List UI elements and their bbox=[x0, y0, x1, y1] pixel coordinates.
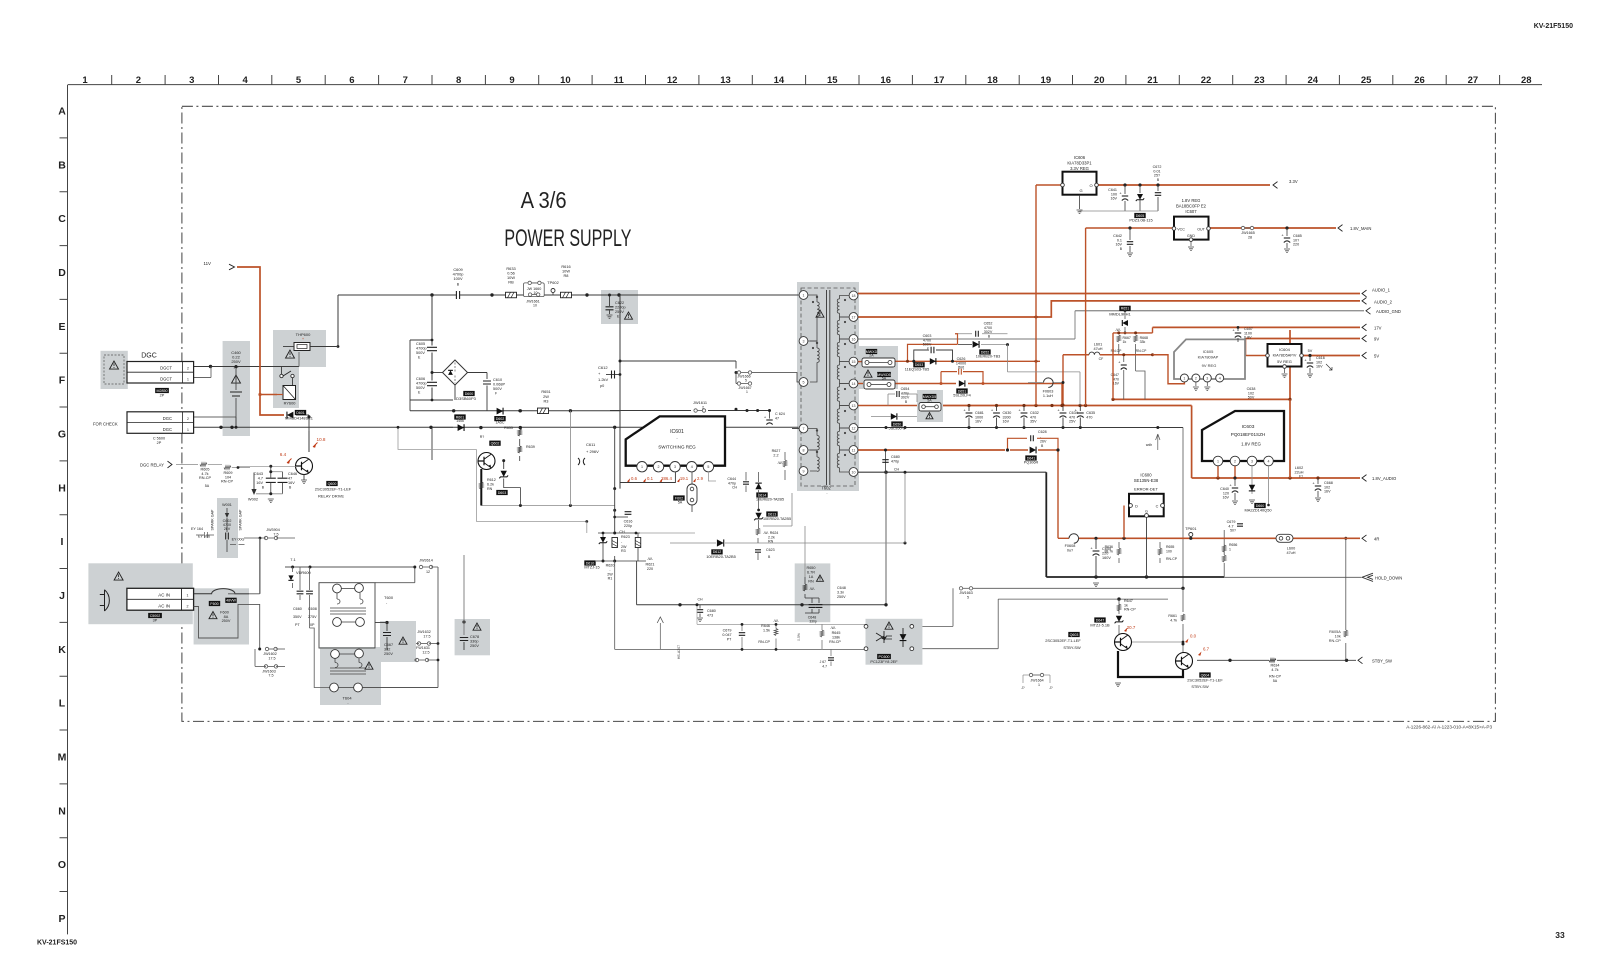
svg-text:HOLD_DOWN: HOLD_DOWN bbox=[1375, 575, 1402, 580]
wire gnd bus drop x1183 bbox=[1182, 428, 1184, 589]
svg-text:1: 1 bbox=[1183, 376, 1185, 380]
svg-text:0P: 0P bbox=[310, 623, 315, 627]
IC601 pins 1-5 bbox=[637, 462, 647, 472]
svg-text:11EQS03-TB5: 11EQS03-TB5 bbox=[905, 368, 929, 372]
svg-text:SWITCHING REG: SWITCHING REG bbox=[658, 445, 696, 450]
svg-text:140k: 140k bbox=[456, 419, 464, 423]
wire y561 row bbox=[596, 560, 646, 562]
page frame ruler lines bbox=[68, 84, 1542, 86]
orange wire IC606 input bbox=[1036, 184, 1062, 186]
svg-text:17.5: 17.5 bbox=[423, 634, 430, 638]
svg-text:10ERB20-TA2B5: 10ERB20-TA2B5 bbox=[706, 554, 736, 559]
shaded area fuse F600 bbox=[194, 588, 249, 644]
svg-text:F0608: F0608 bbox=[1065, 544, 1076, 548]
svg-text:10: 10 bbox=[560, 75, 571, 86]
zener D605 PDZ3.0B bbox=[1139, 185, 1141, 193]
svg-text:28: 28 bbox=[1248, 235, 1252, 239]
svg-text:RN-CP: RN-CP bbox=[758, 640, 770, 644]
svg-text:Q602: Q602 bbox=[491, 441, 500, 445]
svg-text:4.7k: 4.7k bbox=[1170, 618, 1177, 622]
svg-text:4: 4 bbox=[1268, 459, 1270, 463]
svg-text:5V: 5V bbox=[1374, 354, 1379, 359]
svg-text:L: L bbox=[59, 698, 66, 710]
diode D613 MMDL9FH1 bbox=[1119, 306, 1130, 311]
svg-text:A-1226-862-A\ A-1223-010-A<8X1: A-1226-862-A\ A-1223-010-A<8X15>A-P3 bbox=[1406, 725, 1492, 730]
svg-text:W002: W002 bbox=[248, 497, 258, 502]
svg-text:5A: 5A bbox=[205, 484, 210, 488]
svg-text:33: 33 bbox=[1555, 930, 1565, 940]
svg-text:JW1667: JW1667 bbox=[738, 386, 751, 390]
svg-text:16V: 16V bbox=[1110, 197, 1117, 201]
wire stby base line y588 bbox=[971, 587, 1183, 589]
svg-text:2SC3052EF-T1-LEF: 2SC3052EF-T1-LEF bbox=[1187, 678, 1223, 683]
svg-text:0.0: 0.0 bbox=[1190, 634, 1197, 639]
svg-text:16V: 16V bbox=[1222, 496, 1229, 500]
svg-text:138k: 138k bbox=[832, 636, 840, 640]
svg-text:CH: CH bbox=[732, 486, 737, 490]
svg-text:D601: D601 bbox=[296, 411, 305, 415]
diode D602 on rect bus bbox=[497, 408, 503, 415]
svg-text:25: 25 bbox=[1361, 75, 1372, 86]
svg-text:2P: 2P bbox=[157, 441, 162, 445]
svg-text:BA18BC0FP E2: BA18BC0FP E2 bbox=[1176, 204, 1207, 209]
svg-text:C605: C605 bbox=[416, 342, 425, 346]
transformer T602 right pins bbox=[849, 291, 858, 300]
svg-text:473: 473 bbox=[707, 614, 713, 618]
svg-text:RELAY DRIVE: RELAY DRIVE bbox=[318, 494, 344, 499]
svg-text:9: 9 bbox=[803, 469, 805, 473]
orange wire pin15 stub bbox=[858, 361, 863, 363]
inductor L600 on 4R rail bbox=[1276, 534, 1293, 542]
svg-text:4: 4 bbox=[242, 75, 248, 86]
resistor R609 bbox=[224, 466, 231, 470]
orange wire 17V mini bus bbox=[1152, 327, 1154, 333]
svg-text:-W-: -W- bbox=[647, 557, 654, 561]
svg-text:2: 2 bbox=[187, 417, 189, 421]
svg-text:T604: T604 bbox=[342, 696, 352, 701]
orange wire IC603 pin2 drop bbox=[1234, 466, 1236, 478]
diode D651 9V bbox=[959, 380, 965, 386]
fuse F602 bbox=[687, 484, 697, 505]
svg-text:2: 2 bbox=[658, 465, 660, 469]
orange wire 1.8V source riser bbox=[1085, 228, 1087, 406]
svg-text:1.8V REG: 1.8V REG bbox=[1241, 442, 1261, 447]
svg-text:35V: 35V bbox=[1030, 420, 1037, 424]
svg-text:ERROR-DET: ERROR-DET bbox=[1134, 487, 1158, 492]
wire IC601 pin5 bracket bbox=[708, 472, 716, 481]
jumper JW1663 bbox=[963, 587, 970, 589]
svg-text:0.1: 0.1 bbox=[647, 476, 654, 481]
wire R647 zener column x1119 bbox=[1118, 599, 1120, 614]
svg-text:D: D bbox=[1135, 505, 1138, 509]
svg-text:RN: RN bbox=[808, 580, 814, 584]
arrow AUDIO_1 bbox=[1362, 290, 1367, 297]
svg-text:+: + bbox=[302, 337, 304, 341]
opto divider lower rail bbox=[614, 561, 616, 649]
svg-text:R639: R639 bbox=[526, 445, 535, 449]
ruler row tick marks bbox=[60, 138, 68, 892]
resistor R647 1k bbox=[1117, 604, 1121, 611]
wire opto lower to y599 bbox=[998, 598, 1168, 600]
arrow AUDIO_GND bbox=[1366, 307, 1371, 314]
svg-text:25V: 25V bbox=[1069, 420, 1076, 424]
shaded area C460 bbox=[223, 341, 250, 436]
svg-text:10ERB20-TB3: 10ERB20-TB3 bbox=[976, 355, 1000, 359]
svg-text:p0: p0 bbox=[600, 384, 604, 388]
diode D653 on 15V rail bbox=[930, 358, 936, 364]
svg-text:6.7: 6.7 bbox=[1203, 647, 1210, 652]
wire D652 output drop bbox=[1007, 345, 1009, 372]
svg-text:22: 22 bbox=[1201, 75, 1212, 86]
svg-text:17: 17 bbox=[934, 75, 945, 86]
svg-text:26: 26 bbox=[1414, 75, 1425, 86]
jumper JW1667 bbox=[741, 383, 749, 385]
svg-text:D613: D613 bbox=[768, 512, 777, 516]
diode D641 on 5V rect bbox=[1030, 447, 1036, 454]
orange wire 4R rail bbox=[1079, 537, 1360, 539]
svg-text:R620: R620 bbox=[606, 564, 615, 568]
svg-text:302V: 302V bbox=[901, 396, 910, 400]
IC604 5V regulator bbox=[1268, 344, 1302, 367]
svg-text:1: 1 bbox=[641, 465, 643, 469]
svg-text:1.5k: 1.5k bbox=[763, 629, 770, 633]
svg-text:J?: J? bbox=[1021, 686, 1025, 690]
jumper JW1602 bbox=[258, 648, 261, 651]
svg-text:0.047: 0.047 bbox=[722, 633, 731, 637]
transformer T602 dashed outline bbox=[801, 288, 855, 486]
red voltage 0.0 bbox=[1185, 639, 1189, 643]
svg-text:17.5: 17.5 bbox=[268, 656, 275, 660]
orange wire pin14 stub bbox=[858, 383, 863, 385]
transistor Q600 relay drive bbox=[308, 431, 310, 452]
svg-text:500V: 500V bbox=[923, 343, 932, 347]
svg-text:13: 13 bbox=[720, 75, 731, 86]
svg-text:KV-21FS150: KV-21FS150 bbox=[37, 940, 77, 947]
orange wire AUDIO_2 rail bbox=[858, 301, 1360, 317]
svg-text:M2850: M2850 bbox=[157, 389, 168, 393]
svg-text:47uH: 47uH bbox=[1286, 551, 1295, 555]
svg-text:1.8V REG: 1.8V REG bbox=[1182, 198, 1201, 203]
svg-text:2.2: 2.2 bbox=[773, 454, 778, 458]
svg-text:10: 10 bbox=[533, 304, 537, 308]
jumper JW3614 bbox=[423, 566, 430, 568]
warning triangle DGC box bbox=[110, 361, 119, 369]
capacitor C649 4.7 bbox=[830, 649, 832, 656]
svg-text:19.1: 19.1 bbox=[680, 476, 689, 481]
svg-text:AUDIO_GND: AUDIO_GND bbox=[1376, 309, 1401, 314]
svg-text:R623: R623 bbox=[621, 535, 630, 539]
orange wire 15V rail bbox=[895, 360, 1040, 362]
svg-text:HS-A307: HS-A307 bbox=[677, 645, 681, 659]
inductor F0608 bbox=[1069, 534, 1079, 544]
shaded area T604 bbox=[320, 647, 381, 705]
warning triangle fuse1 bbox=[864, 370, 872, 377]
wire y505 row bbox=[481, 505, 614, 507]
svg-text:4R: 4R bbox=[1374, 536, 1379, 541]
arrow 9V bbox=[1362, 335, 1367, 342]
svg-text:MA2ZD140Q50: MA2ZD140Q50 bbox=[1244, 508, 1272, 513]
svg-text:+ 296V: + 296V bbox=[586, 449, 599, 454]
capacitor C678 bbox=[462, 620, 465, 623]
svg-text:330p: 330p bbox=[809, 620, 817, 624]
IC603 pin4 down bbox=[1268, 466, 1270, 505]
svg-text:6: 6 bbox=[349, 75, 354, 86]
svg-text:5SL20LF4: 5SL20LF4 bbox=[953, 394, 971, 398]
svg-text:4.7: 4.7 bbox=[822, 665, 827, 669]
svg-text:4: 4 bbox=[691, 465, 693, 469]
svg-text:AUDIO_1: AUDIO_1 bbox=[1372, 288, 1391, 293]
capacitor C622 in gray box bbox=[606, 307, 614, 310]
svg-text:DGC: DGC bbox=[163, 416, 172, 421]
svg-text:2SC3052EF-T1-LEF: 2SC3052EF-T1-LEF bbox=[1045, 638, 1081, 643]
svg-text:15: 15 bbox=[852, 360, 856, 364]
svg-text:11V: 11V bbox=[204, 261, 212, 266]
transformer T602 left windings bbox=[808, 295, 817, 302]
svg-text:M: M bbox=[58, 751, 67, 763]
wire T602 pin12 gnd bus right bbox=[858, 427, 1183, 429]
svg-text:12.5: 12.5 bbox=[422, 650, 429, 654]
svg-text:-: - bbox=[1040, 435, 1041, 439]
diode D601 MMBD relay bbox=[287, 412, 293, 419]
svg-text:10k: 10k bbox=[1335, 635, 1341, 639]
svg-text:18: 18 bbox=[987, 75, 998, 86]
svg-text:47uH: 47uH bbox=[1093, 347, 1102, 351]
svg-text:27: 27 bbox=[1468, 75, 1479, 86]
wire stby_sw line y660 bbox=[1197, 659, 1269, 661]
svg-text:DGCT: DGCT bbox=[160, 377, 172, 382]
orange wire IC603 right riser bbox=[1289, 330, 1291, 399]
orange wire 11V feed bbox=[237, 267, 284, 415]
wire R650 top to T602 bbox=[804, 526, 806, 577]
wire bridge frame left x410 bbox=[409, 340, 411, 411]
svg-text:12: 12 bbox=[426, 570, 430, 574]
svg-text:SPARK GAP: SPARK GAP bbox=[239, 509, 243, 531]
arrow 17V bbox=[1362, 324, 1367, 331]
svg-text:250V: 250V bbox=[837, 595, 846, 599]
capacitor C610 bbox=[483, 381, 491, 384]
svg-text:5: 5 bbox=[803, 380, 805, 384]
svg-text:3.3V: 3.3V bbox=[1289, 179, 1298, 184]
capacitor C643 bbox=[238, 465, 296, 467]
orange wire pin11 5V rect rail bbox=[858, 449, 1005, 451]
svg-text:7.5: 7.5 bbox=[268, 674, 273, 678]
relay switch RY600 bbox=[280, 374, 283, 377]
svg-text:L600: L600 bbox=[1287, 547, 1295, 551]
transistor Q604 bbox=[1176, 653, 1193, 670]
svg-text:47: 47 bbox=[288, 477, 292, 481]
resistors R636 R655b bbox=[1118, 542, 1120, 548]
svg-text:KIA78D5AP/V: KIA78D5AP/V bbox=[1273, 354, 1297, 358]
svg-text:TP601: TP601 bbox=[1185, 526, 1196, 531]
wire bridge left column x432 bbox=[431, 295, 433, 346]
svg-text:7.1: 7.1 bbox=[290, 557, 295, 562]
svg-text:P: P bbox=[58, 913, 65, 925]
resistor R605 bbox=[200, 463, 207, 467]
capacitor C640 120 bbox=[1234, 477, 1237, 480]
fuse PS601 2A bbox=[866, 349, 877, 354]
svg-text:33k: 33k bbox=[1140, 340, 1146, 344]
wire C643 bottom bbox=[256, 493, 283, 495]
svg-text:17: 17 bbox=[852, 315, 856, 319]
wire C612 connect bbox=[606, 374, 620, 376]
zener D603 bbox=[503, 461, 505, 469]
svg-text:RN-CP: RN-CP bbox=[1166, 557, 1178, 561]
svg-text:GND: GND bbox=[1187, 234, 1195, 238]
svg-text:3P: 3P bbox=[153, 619, 158, 623]
capacitor C646 bbox=[271, 471, 283, 473]
svg-text:4.7: 4.7 bbox=[258, 477, 263, 481]
svg-text:G: G bbox=[1079, 188, 1082, 193]
wire x1224 sense divider bbox=[1223, 530, 1225, 555]
svg-text:R650: R650 bbox=[806, 566, 815, 570]
svg-text:OUT: OUT bbox=[1197, 228, 1205, 232]
arrow HOLD_DOWN hollow bbox=[1362, 573, 1373, 581]
resistor R613 on emitter bbox=[480, 482, 484, 489]
svg-text:7: 7 bbox=[403, 75, 408, 86]
capacitor C608 bbox=[306, 591, 313, 594]
orange wire AUDIO_1 rail bbox=[858, 293, 1360, 295]
IC603 pins bbox=[1213, 456, 1223, 466]
svg-text:C680: C680 bbox=[707, 609, 716, 613]
svg-text:2: 2 bbox=[1195, 376, 1197, 380]
shaded area transformer T602 bbox=[797, 282, 859, 491]
orange wire main 1.8V bus y405 bbox=[943, 405, 1192, 407]
wire relay switch to bridge top bbox=[298, 352, 300, 367]
svg-text:R646: R646 bbox=[761, 624, 770, 628]
svg-text:C660: C660 bbox=[293, 607, 302, 611]
svg-text:C 624: C 624 bbox=[775, 412, 785, 416]
wire relay diode to Q600 bbox=[296, 414, 309, 416]
svg-text:1: 1 bbox=[82, 75, 88, 86]
svg-text:N: N bbox=[58, 805, 66, 817]
svg-text:CF: CF bbox=[1099, 357, 1104, 361]
diode D650 13V bbox=[891, 413, 897, 419]
svg-text:2: 2 bbox=[187, 605, 189, 609]
svg-text:AUDIO_2: AUDIO_2 bbox=[1374, 300, 1393, 305]
label M2850 bbox=[155, 388, 169, 393]
svg-text:14: 14 bbox=[774, 75, 785, 86]
svg-text:17V: 17V bbox=[1374, 326, 1382, 331]
svg-text:KV-21F5150: KV-21F5150 bbox=[1534, 23, 1573, 30]
svg-text:6.2k: 6.2k bbox=[487, 483, 494, 487]
wire y400 bridge bottom bbox=[410, 399, 453, 401]
svg-text:47: 47 bbox=[775, 417, 779, 421]
svg-text:16: 16 bbox=[852, 337, 856, 341]
connector DGCT bbox=[127, 362, 194, 384]
diode D613b zener bbox=[755, 513, 761, 519]
wire opto upper y588 link bbox=[952, 588, 954, 626]
AC plug symbol bbox=[105, 590, 110, 611]
wire DGCT row to relay y366.5 bbox=[194, 366, 299, 368]
svg-text:5: 5 bbox=[745, 379, 747, 383]
svg-text:1.8V_MAIN: 1.8V_MAIN bbox=[1350, 226, 1371, 231]
svg-text:1.1uH: 1.1uH bbox=[1043, 394, 1053, 398]
svg-text:11: 11 bbox=[852, 448, 856, 452]
svg-text:15: 15 bbox=[827, 75, 838, 86]
wire audio gnd y311 bbox=[1075, 310, 1364, 312]
svg-text:R655: R655 bbox=[504, 426, 513, 430]
orange wire 1.8V_MAIN output bbox=[1209, 227, 1337, 229]
svg-text:9V: 9V bbox=[1374, 337, 1379, 342]
svg-text:500V: 500V bbox=[416, 386, 425, 390]
svg-text:Q603: Q603 bbox=[1070, 633, 1079, 637]
orange wire 9V to IC604 bbox=[1245, 339, 1247, 356]
arrow 4R bbox=[1362, 535, 1367, 542]
svg-text:16V: 16V bbox=[1324, 490, 1331, 494]
svg-text:2: 2 bbox=[187, 367, 189, 371]
svg-text:8: 8 bbox=[456, 75, 461, 86]
svg-text:12: 12 bbox=[852, 426, 856, 430]
orange wire 9V rect bbox=[895, 383, 956, 385]
svg-text:G: G bbox=[58, 428, 66, 440]
svg-text:2: 2 bbox=[136, 75, 141, 86]
svg-text:RY600: RY600 bbox=[284, 401, 297, 406]
svg-text:MTZJ-5.1B: MTZJ-5.1B bbox=[1090, 623, 1110, 628]
red voltage 10.8 bbox=[313, 444, 316, 448]
svg-text:16V: 16V bbox=[1316, 365, 1323, 369]
svg-text:12: 12 bbox=[667, 75, 678, 86]
ruler column tick marks bbox=[112, 75, 1500, 85]
AC line 1 wire bbox=[228, 593, 260, 595]
shaded area C622 bbox=[601, 290, 638, 324]
svg-text:POWER SUPPLY: POWER SUPPLY bbox=[504, 225, 631, 252]
svg-text:O: O bbox=[1089, 183, 1092, 188]
svg-text:0.068P: 0.068P bbox=[493, 383, 506, 387]
orange wire 5V rect a bbox=[1010, 449, 1028, 451]
svg-text:A: A bbox=[58, 106, 66, 118]
capacitor C616 220p bbox=[613, 516, 616, 519]
connector AC IN bbox=[127, 588, 194, 610]
svg-text:10.8: 10.8 bbox=[317, 437, 326, 442]
shaded area THP600 bbox=[273, 330, 326, 367]
svg-text:STBY-SW: STBY-SW bbox=[1063, 645, 1081, 650]
schematic dash-dot border bbox=[182, 106, 1496, 721]
svg-text:EY 164: EY 164 bbox=[191, 527, 203, 531]
jumper JW1660 bbox=[524, 283, 545, 297]
svg-text:3: 3 bbox=[1206, 376, 1208, 380]
wire x570 drop bbox=[569, 411, 571, 506]
svg-text:250V: 250V bbox=[222, 619, 231, 623]
shaded area spark gap C602 bbox=[217, 498, 238, 558]
resistor R622 hatched bbox=[635, 538, 641, 548]
svg-text:100V: 100V bbox=[453, 276, 462, 281]
shaded area fuses MWXD bbox=[859, 346, 898, 389]
wire x414 riser bbox=[414, 567, 416, 583]
svg-text:PQ306R: PQ306R bbox=[1024, 461, 1039, 465]
svg-text:24: 24 bbox=[1307, 75, 1318, 86]
svg-text:RN-CP: RN-CP bbox=[1136, 349, 1147, 353]
svg-text:3.3V REG: 3.3V REG bbox=[1070, 166, 1089, 171]
wire hold-down line bbox=[1224, 576, 1361, 578]
IC601 red pin voltages bbox=[627, 478, 630, 482]
jumper JW1664 stub bbox=[1033, 674, 1041, 676]
svg-text:K: K bbox=[58, 644, 66, 656]
svg-text:RN-CP: RN-CP bbox=[221, 480, 233, 484]
wire bottom bus y605 bbox=[637, 604, 886, 606]
jumper JW1603 bbox=[268, 665, 275, 667]
svg-text:JW3614: JW3614 bbox=[419, 559, 433, 563]
transformer T602 right windings bbox=[840, 296, 850, 299]
svg-text:RN: RN bbox=[768, 540, 774, 544]
capacitor C628 loop cap bbox=[1031, 435, 1034, 441]
wire rectified bus y411 bbox=[410, 410, 620, 412]
orange wire relay coil branch bbox=[260, 394, 277, 396]
red voltage 6.7 bbox=[1198, 652, 1202, 656]
shaded area optocoupler PC600 bbox=[866, 619, 923, 665]
transformer T600 bbox=[319, 583, 375, 648]
svg-text:D653: D653 bbox=[915, 363, 924, 367]
svg-text:VCC: VCC bbox=[1177, 228, 1185, 232]
